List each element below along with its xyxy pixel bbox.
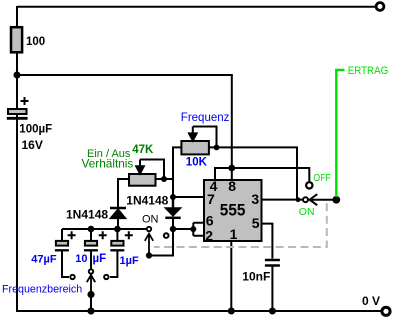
potentiometer P2 wiper arrow [136,160,144,174]
wire left vertical rail [16,6,18,312]
wire P1 to pin 3 net [209,147,297,199]
wire Vcc riser down [231,75,233,168]
svg-text:1N4148: 1N4148 [66,208,108,222]
wire D2 anode from pin7 node [172,197,175,208]
switch S1b ON contact [303,197,308,202]
wire C3 bottom to contact [90,250,92,268]
junction D2/switch return [170,226,176,232]
svg-text:100: 100 [26,36,45,48]
terminal 0 V [382,307,390,315]
capacitor C2 47uF top plate [56,241,68,246]
potentiometer P1 10K body [181,141,209,154]
wire top supply rail [17,6,375,8]
svg-text:2: 2 [205,227,213,243]
diode D1 triangle (pointing up) [110,209,126,219]
capacitor C3 plus [99,231,107,239]
wire P1 wiper loop [193,127,217,148]
svg-text:8: 8 [228,178,236,194]
junction ERTRAG pole [332,196,340,204]
diode D2 triangle (pointing down) [165,208,181,216]
wire pin 1 to ground rail [230,241,232,311]
potentiometer P2 47K body [129,174,156,186]
IC U1 555 body [204,180,262,241]
junction C3 / rail [88,226,95,233]
svg-text:1N4148: 1N4148 [126,194,168,208]
svg-text:ERTRAG: ERTRAG [348,65,389,77]
junction node A (R1 / C1 / rail) [14,72,21,79]
rotary contact a [70,275,74,279]
wire Vcc rail to IC riser [17,74,233,76]
capacitor C4 plus [125,231,133,239]
svg-text:10: 10 [75,253,87,265]
junction C5 / ground rail [269,308,276,315]
junction pin1 / ground rail [228,308,235,315]
junction ground rail / rotary [87,307,94,314]
wire C2 bottom to contact [62,250,69,277]
svg-text:6: 6 [206,212,214,228]
capacitor C5 10nF bottom plate [265,264,280,267]
svg-text:µF: µF [93,253,107,265]
switch S1a ON contact [147,227,151,231]
svg-text:555: 555 [220,201,246,220]
potentiometer P1 wiper arrow [189,127,197,141]
wire wiper stem to ground rail [90,294,92,311]
capacitor C1 100uF bottom plate [7,117,28,120]
wire ERTRAG (green) [336,70,344,197]
svg-text:10nF: 10nF [242,270,270,284]
switch S1b pole arrow [310,194,334,205]
wire C3 top [90,229,92,241]
wire pin 3 output [261,199,303,201]
svg-text:1µF: 1µF [120,255,139,267]
junction pin3 / pot riser [296,197,301,202]
svg-text:ON: ON [299,206,315,218]
rotary contact c [104,275,108,279]
svg-text:Verhältnis: Verhältnis [82,157,134,171]
wire pin 5 to C5 [261,224,272,259]
junction P2 right end [161,176,167,182]
junction P1 right end [214,145,220,151]
junction wiper stem [87,291,94,298]
svg-text:0 V: 0 V [362,294,380,308]
svg-text:47µF: 47µF [31,254,57,266]
capacitor C3 10uF top plate [85,241,97,246]
wire D1 anode down [117,218,119,229]
wire vertical net x=173 [172,179,174,197]
wire P1 left end down [173,147,181,179]
svg-text:Frequenz: Frequenz [181,112,230,124]
diode D2 cathode bar [165,217,180,220]
wire P2 right to vertical [156,178,174,180]
wire pin 8 riser [231,168,233,180]
wire C4 bottom to contact [110,250,117,277]
junction 6/2 split [190,226,196,232]
diode D1 cathode bar [110,207,126,210]
capacitor C4 1uF bottom plate [110,249,124,251]
wire timing caps rail [62,228,146,230]
capacitor C1 100uF top plate [8,109,27,114]
rotary switch wiper arrow (Frequenzbereich) [87,275,95,294]
capacitor C1 plus sign [21,97,29,105]
terminal supply + [376,3,384,11]
svg-text:OFF: OFF [313,172,331,184]
wire pin 7 [173,196,205,198]
capacitor C4 1uF top plate [111,241,123,246]
wire C5 to ground rail [271,266,273,311]
switch S1b OFF contact [306,182,312,188]
junction pin8/Vcc rail [228,165,235,172]
junction D1 / C4 / rail [114,226,121,233]
wire C4 top [116,229,118,241]
svg-text:100µF: 100µF [19,123,52,135]
svg-text:3: 3 [251,191,259,207]
svg-text:10K: 10K [186,156,208,168]
svg-text:47K: 47K [132,144,154,156]
junction S1a pole [146,252,152,258]
wire S1a pole to 6/2 net [149,229,173,256]
junction pin 7 tee [170,194,176,200]
wire D2 cathode down [172,218,174,229]
dashed mechanical linkage S1a-S1b [154,203,327,247]
wire P2 wiper loop [140,160,164,180]
wire P2 left end down to D1 [118,179,129,208]
svg-text:ON: ON [142,214,159,226]
svg-text:5: 5 [252,215,260,231]
resistor R1 100 [11,27,22,52]
wire pins 4/8 top rail [215,168,309,181]
rotary contact b [89,269,93,273]
capacitor C3 10uF bottom plate [84,249,98,251]
capacitor C2 plus [68,231,76,239]
svg-text:Frequenzbereich: Frequenzbereich [2,284,82,296]
svg-text:7: 7 [207,191,215,207]
svg-text:1: 1 [230,226,238,242]
capacitor C5 10nF top plate [265,259,280,262]
switch S1a pole arrow [145,234,153,256]
capacitor C2 47uF bottom plate [55,249,69,251]
wire pins 6/2 branch [173,223,205,236]
wire C2 top [61,229,63,241]
switch S1a OFF contact [164,233,169,238]
wire ground rail 0V [17,310,381,312]
svg-text:16V: 16V [22,138,43,152]
